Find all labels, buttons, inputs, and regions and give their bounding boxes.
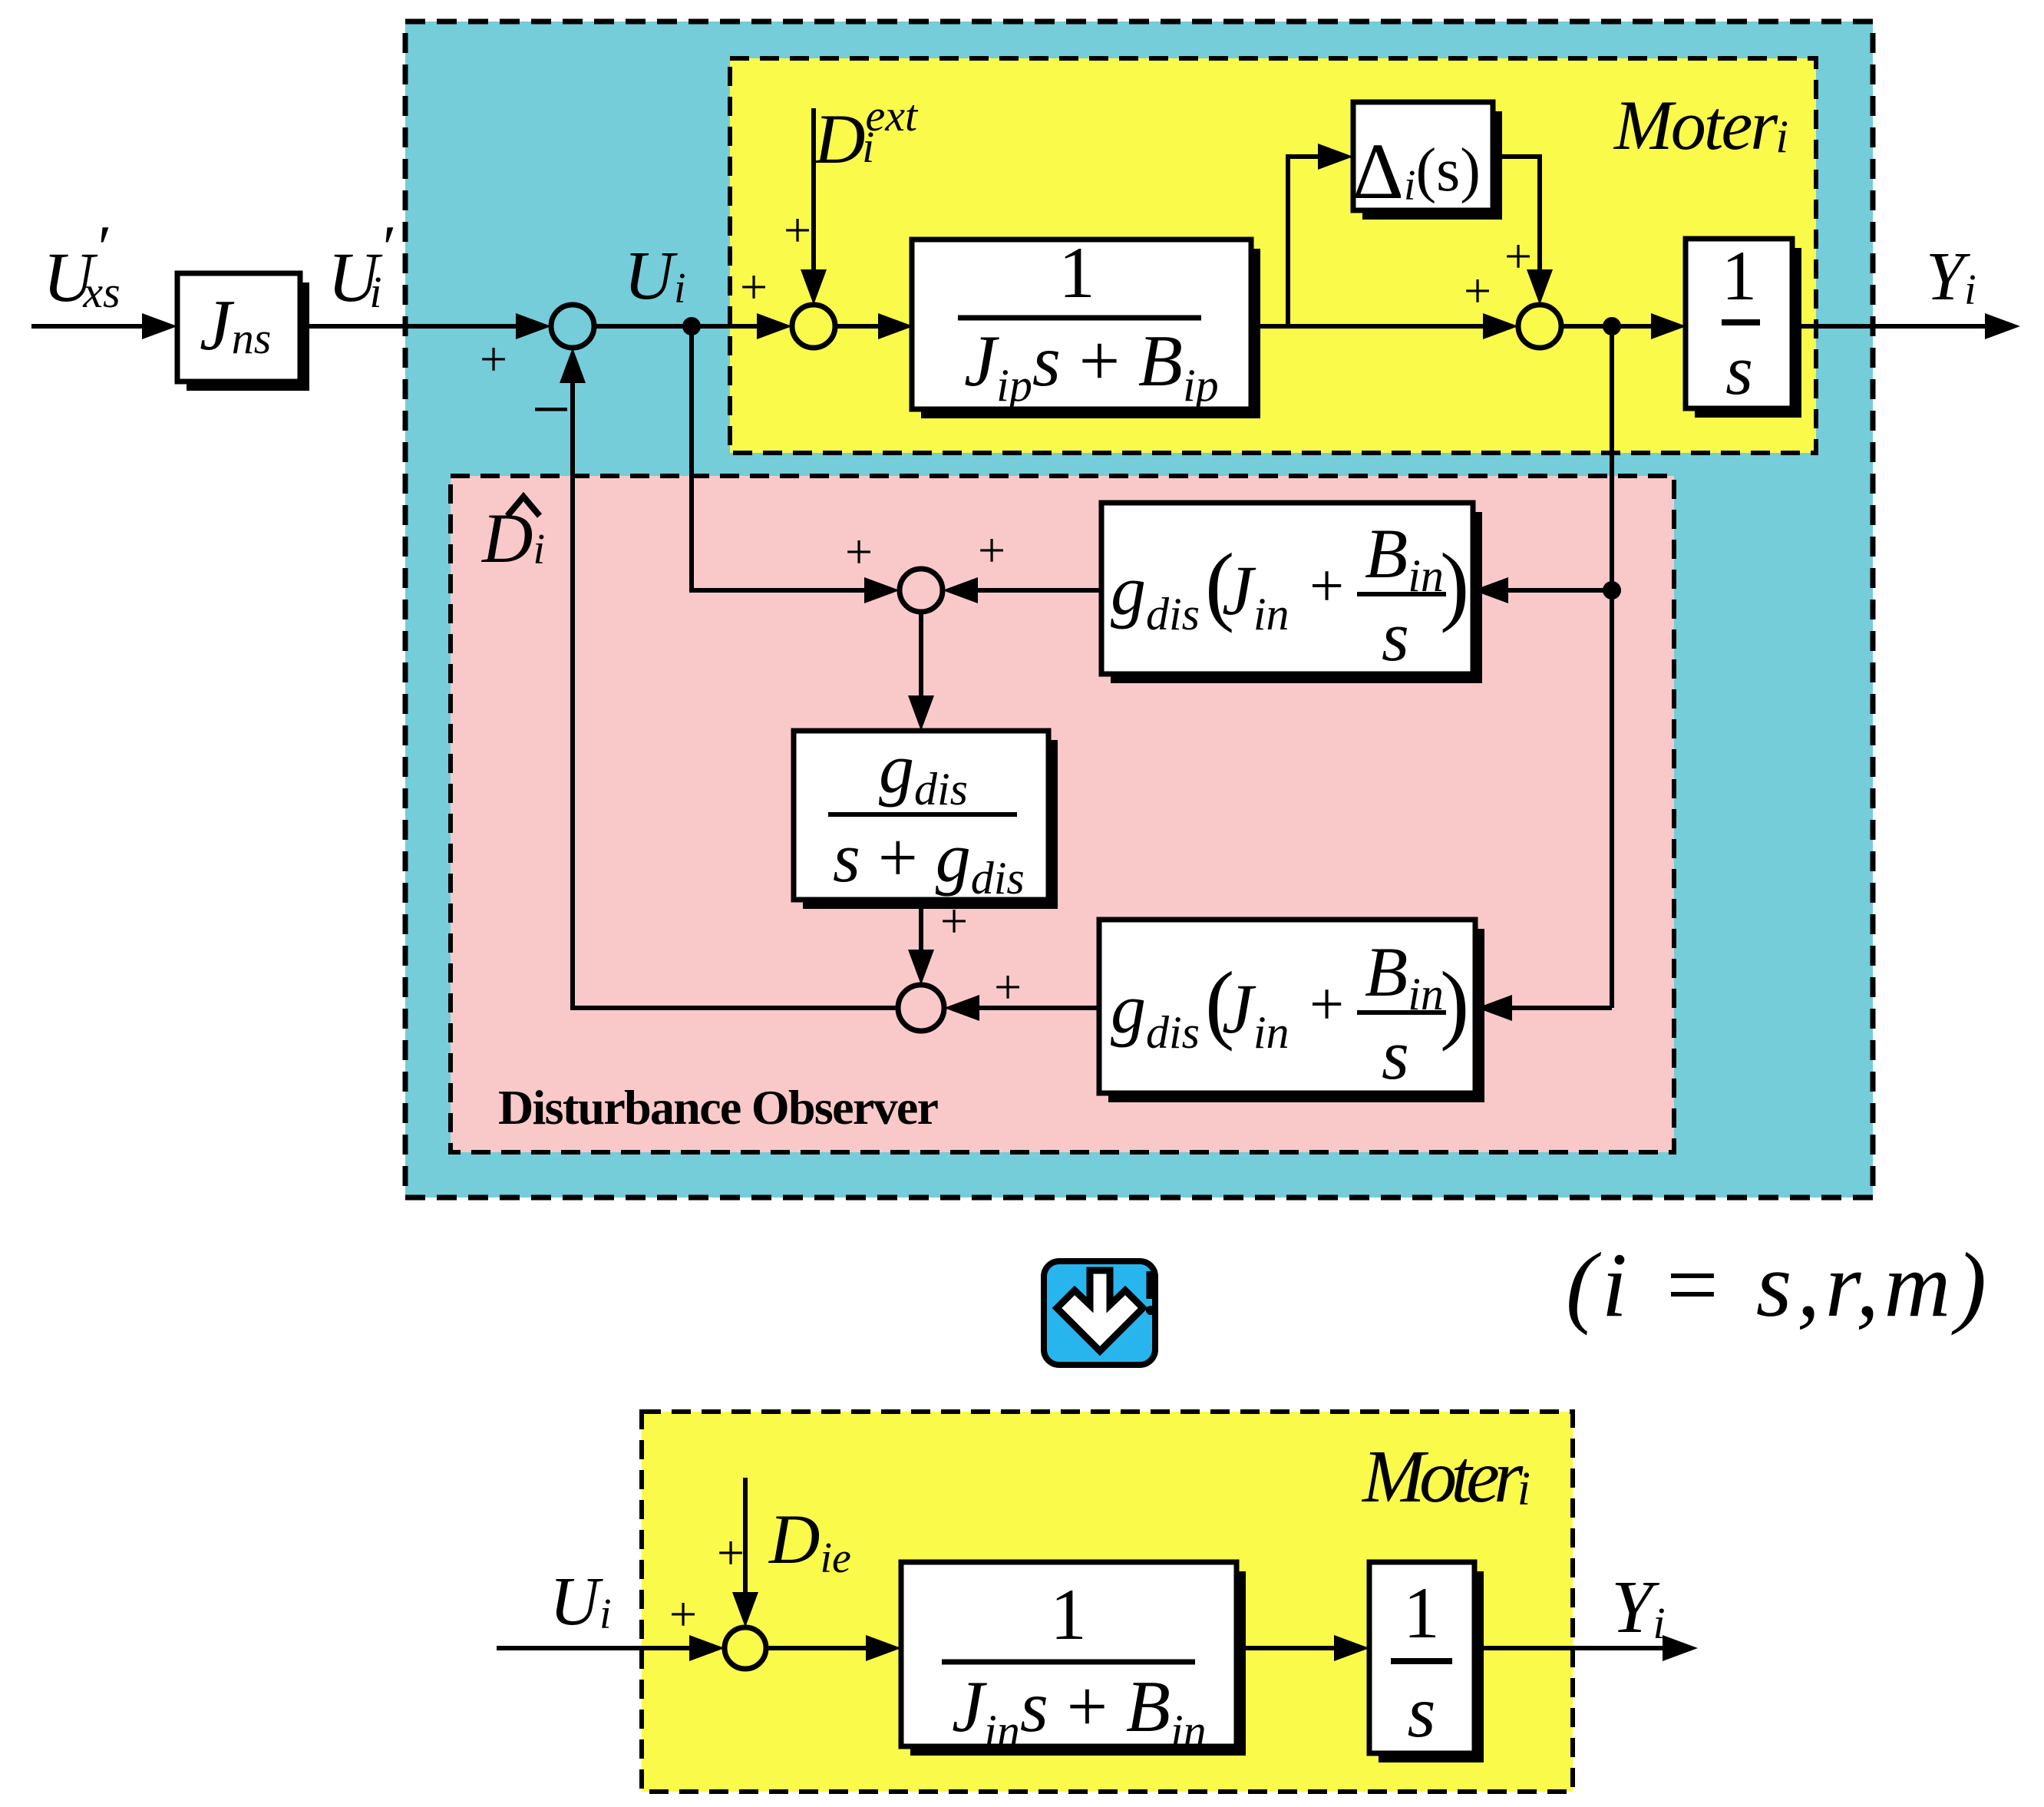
- block integrator 1/s top: [1686, 236, 1801, 418]
- svg-text:1: 1: [1722, 236, 1757, 315]
- label Moteri top: [1613, 86, 1788, 164]
- label U'xs: [43, 213, 121, 317]
- svg-text:+: +: [845, 524, 873, 579]
- svg-text:+: +: [1464, 263, 1491, 318]
- label Di ext: [813, 91, 919, 178]
- wire S2 to plant block: [835, 313, 913, 339]
- label D hat i: [480, 497, 545, 577]
- node feedback branch: [1603, 581, 1621, 600]
- wire input U'xs to Jns: [31, 313, 177, 339]
- label Disturbance Observer: [498, 1080, 939, 1135]
- block gdis filter: [794, 729, 1058, 909]
- node after S3: [1603, 317, 1621, 335]
- block gdis1: [1101, 503, 1482, 683]
- svg-text:+: +: [1504, 229, 1532, 283]
- pink Disturbance Observer box: [451, 476, 1674, 1152]
- svg-text:1: 1: [1058, 232, 1095, 313]
- svg-text:Δi(s): Δi(s): [1352, 127, 1481, 216]
- block integrator 1/s bottom: [1369, 1562, 1484, 1762]
- wire Jns to sum S1: [300, 313, 551, 339]
- sign plus S3 left: [1464, 263, 1491, 318]
- svg-text:−: −: [532, 372, 571, 448]
- sign plus S4 left: [845, 524, 873, 579]
- svg-text:+: +: [940, 894, 968, 948]
- wire gdis1 to S4: [943, 577, 1101, 603]
- sign minus S1 feedback: [532, 372, 571, 448]
- svg-text:+: +: [740, 259, 768, 314]
- block 1/(Jip s+Bip): [912, 232, 1260, 418]
- sum junction S1: [551, 305, 594, 348]
- sign plus Die: [717, 1525, 745, 1580]
- label Yi top: [1926, 239, 1976, 315]
- svg-text:1: 1: [1050, 1574, 1087, 1655]
- sign plus S3 top: [1504, 229, 1532, 283]
- svg-text:s: s: [1725, 331, 1753, 409]
- yellow Moter box (bottom): [642, 1412, 1573, 1792]
- wire integrator to Yi: [1474, 1635, 1698, 1661]
- wire Die input: [732, 1478, 758, 1627]
- sum junction S5: [898, 985, 944, 1031]
- label Ui bottom: [550, 1564, 612, 1640]
- sum junction S6: [725, 1627, 766, 1669]
- wire S4 down to filter: [908, 612, 934, 731]
- sign plus S5 top: [940, 894, 968, 948]
- wire Di ext input: [801, 108, 827, 305]
- sign plus S6 input: [669, 1587, 697, 1641]
- label (i = s,r,m): [1566, 1234, 1986, 1336]
- sign plus S2 input: [740, 259, 768, 314]
- wire S6 to plant: [766, 1635, 901, 1661]
- wire S1 to S2: [594, 313, 792, 339]
- svg-text:+: +: [784, 203, 811, 257]
- svg-text:): ): [1440, 536, 1469, 633]
- svg-text:+: +: [1309, 971, 1344, 1039]
- label Ui: [624, 238, 686, 314]
- wire integrator to Yi output: [1792, 313, 2020, 339]
- svg-text:): ): [1440, 954, 1469, 1052]
- wire gdis2 to S5: [944, 995, 1099, 1021]
- wire bottom input Ui: [497, 1635, 725, 1661]
- wire feedback node down: [1610, 326, 1614, 1008]
- block Delta i(s): [1352, 102, 1502, 220]
- label U'i: [328, 213, 393, 317]
- svg-text:s: s: [1382, 597, 1409, 676]
- svg-text:+: +: [978, 523, 1005, 577]
- label Moteri bottom: [1361, 1435, 1531, 1518]
- block gdis2: [1099, 920, 1484, 1102]
- wire S3 to integrator: [1561, 313, 1686, 339]
- svg-text:+: +: [669, 1587, 697, 1641]
- sum junction S2: [792, 305, 835, 348]
- svg-text:+: +: [994, 960, 1022, 1014]
- yellow Moter box (top): [730, 58, 1816, 453]
- svg-text:Disturbance Observer: Disturbance Observer: [498, 1080, 939, 1135]
- label Die: [768, 1500, 851, 1582]
- svg-text:+: +: [480, 332, 507, 386]
- sum junction S4: [900, 569, 943, 612]
- icon down arrow: [1044, 1261, 1155, 1365]
- wire Delta to S3: [1493, 157, 1553, 305]
- svg-text:1: 1: [1403, 1572, 1440, 1653]
- svg-text:+: +: [717, 1525, 745, 1580]
- node Ui branch: [682, 317, 701, 335]
- wire Ui branch down to S4: [692, 326, 900, 603]
- sign plus Di ext: [784, 203, 811, 257]
- wire S5 to S1 feedback: [560, 348, 898, 1008]
- sign plus S4 right: [978, 523, 1005, 577]
- svg-text:+: +: [1309, 553, 1344, 620]
- block 1/(Jin s+Bin): [901, 1562, 1246, 1756]
- wire filter to S5: [908, 900, 934, 985]
- svg-text:Moteri: Moteri: [1361, 1435, 1531, 1518]
- sign plus S1 input: [480, 332, 507, 386]
- outer cyan dashed region: [405, 21, 1873, 1198]
- wire node to gdis1: [1473, 577, 1612, 603]
- sign plus S5 right: [994, 960, 1022, 1014]
- sum junction S3: [1518, 305, 1561, 348]
- wire branch up to Delta: [1288, 144, 1353, 326]
- svg-text:Moteri: Moteri: [1613, 86, 1788, 164]
- wire plant to integrator: [1237, 1635, 1369, 1661]
- svg-text:s: s: [1408, 1671, 1436, 1752]
- label Yi bottom: [1611, 1566, 1666, 1649]
- wire feedback to gdis2: [1477, 995, 1612, 1021]
- wire plant to S3: [1251, 313, 1518, 339]
- svg-text:s: s: [1382, 1016, 1409, 1094]
- block Jns: [177, 273, 309, 391]
